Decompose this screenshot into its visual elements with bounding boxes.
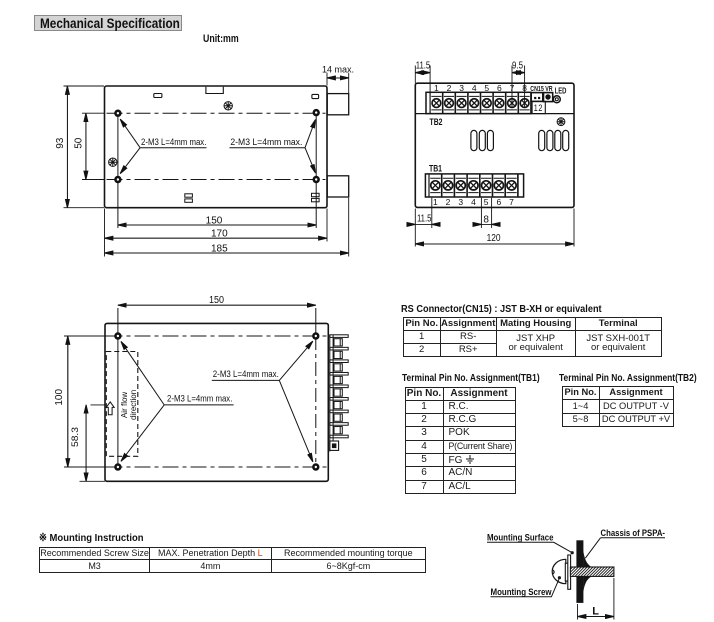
terminal block TB1: [425, 174, 523, 197]
svg-text:120: 120: [487, 233, 501, 244]
svg-text:Mounting Screw: Mounting Screw: [491, 587, 552, 598]
vent slot top-right: [312, 94, 319, 98]
svg-text:1: 1: [434, 83, 439, 93]
svg-text:CN15 VR: CN15 VR: [530, 84, 553, 93]
centerline bottom hole row: [107, 466, 328, 468]
dim 170: [105, 209, 328, 257]
vent slots group A: [471, 130, 494, 150]
TB2 pin numbers: [434, 83, 527, 93]
table: RS connector CN15: [401, 303, 602, 315]
svg-text:58.3: 58.3: [70, 427, 81, 447]
front panel outline: [415, 83, 574, 207]
svg-text:direction: direction: [129, 390, 138, 420]
mounting hole bottom-right: [312, 463, 319, 470]
screw head symbol left: [109, 158, 117, 166]
svg-text:11.5: 11.5: [417, 214, 432, 225]
svg-text:6: 6: [497, 83, 502, 93]
svg-text:TB2: TB2: [430, 117, 443, 127]
extension line above right hole: [315, 308, 317, 336]
dim 100: [64, 336, 114, 467]
svg-text:Chassis of PSPA-: Chassis of PSPA-: [601, 528, 666, 539]
svg-text:7: 7: [510, 83, 515, 93]
dim 93: [64, 86, 105, 208]
svg-text:2-M3 L=4mm max.: 2-M3 L=4mm max.: [213, 369, 279, 379]
svg-text:93: 93: [55, 137, 66, 149]
svg-text:2: 2: [447, 83, 452, 93]
mounting instruction title: [39, 532, 144, 544]
svg-text:100: 100: [54, 389, 65, 406]
svg-text:2-M3 L=4mm max.: 2-M3 L=4mm max.: [167, 393, 232, 403]
leader label left 2-M3 bottom view: [121, 342, 234, 462]
vent slot top-left: [154, 94, 162, 98]
air flow arrow: [106, 402, 114, 415]
mounting hole top-left: [114, 110, 121, 117]
leader label right 2-M3: [230, 120, 316, 173]
mounting hole top-left: [114, 332, 121, 339]
svg-text:5: 5: [484, 197, 489, 207]
screw shaft hatched: [560, 567, 627, 576]
washer: [565, 563, 568, 581]
dim 185: [105, 198, 349, 257]
svg-text:7: 7: [509, 197, 514, 207]
mounting hole top-right: [313, 109, 320, 116]
dim 150 bottom: [118, 224, 316, 226]
mounting surface plate: [568, 555, 571, 589]
table: TB2 pin assignment: [559, 373, 697, 384]
centerline top hole row: [107, 112, 326, 114]
dim 120: [415, 209, 574, 247]
svg-text:LED: LED: [555, 87, 567, 96]
chassis outline bottom view: [105, 323, 328, 481]
svg-text:4: 4: [472, 83, 477, 93]
connector CN15: [531, 93, 543, 102]
mounting hole bottom-left: [114, 463, 121, 470]
mounting hole bottom-left: [114, 176, 121, 183]
centerline top hole row: [107, 335, 328, 337]
terminal strip side view comb: [330, 335, 348, 452]
svg-text:150: 150: [206, 215, 223, 226]
screw head symbol top: [224, 102, 232, 110]
dim 150 top: [118, 304, 316, 306]
vent pair bottom-right: [312, 193, 320, 201]
table: TB1 pin assignment: [402, 373, 540, 384]
svg-text:150: 150: [209, 295, 224, 306]
section header: Mechanical Specification: [34, 15, 182, 31]
svg-text:9.5: 9.5: [512, 60, 523, 71]
svg-text:L: L: [592, 606, 599, 618]
chassis outline box: [105, 86, 328, 208]
svg-text:4: 4: [471, 197, 476, 207]
svg-text:Mounting Surface: Mounting Surface: [487, 533, 554, 544]
dim 50: [82, 113, 104, 179]
svg-text:2-M3 L=4mm max.: 2-M3 L=4mm max.: [141, 137, 206, 147]
vent slots group B: [539, 130, 569, 150]
leader label right 2-M3 bottom view: [212, 341, 313, 462]
svg-text:3: 3: [459, 83, 464, 93]
CN15 pin label compartment: [532, 101, 545, 113]
chassis black bar: [576, 540, 591, 603]
dashed fan region: [106, 352, 138, 457]
dim L: [578, 578, 614, 620]
panel divider line: [415, 113, 574, 115]
vent pair bottom-center: [185, 194, 193, 202]
svg-text:Air flow: Air flow: [120, 392, 129, 418]
svg-text:50: 50: [74, 137, 85, 149]
dim 11.5 bottom: [408, 198, 440, 247]
extension line through left holes: [117, 113, 119, 228]
dim 11.5 top: [415, 66, 430, 93]
dim 58.3: [80, 405, 106, 481]
dim 14 max: [327, 73, 349, 93]
TB1 pin numbers: [433, 197, 514, 207]
svg-text:170: 170: [211, 229, 228, 240]
leader mounting screw: [491, 576, 562, 597]
screw head symbol front: [557, 118, 565, 126]
leader chassis: [585, 538, 665, 558]
leader label left 2-M3: [120, 119, 206, 174]
svg-text:1 2: 1 2: [534, 103, 543, 113]
svg-text:2-M3 L=4mm max.: 2-M3 L=4mm max.: [230, 137, 302, 147]
mounting hole bottom-right: [313, 176, 320, 183]
top notch: [206, 87, 223, 94]
extension line through left holes: [117, 308, 119, 467]
dim 9.5 top: [512, 66, 525, 109]
svg-text:185: 185: [211, 243, 228, 254]
svg-text:2: 2: [446, 197, 451, 207]
svg-text:TB1: TB1: [429, 163, 442, 173]
svg-text:11.5: 11.5: [416, 60, 431, 71]
svg-text:1: 1: [433, 197, 438, 207]
LED indicator: [553, 96, 560, 103]
centerline bottom hole row: [107, 179, 326, 181]
unit label: [203, 33, 239, 45]
right tab lower: [327, 176, 349, 197]
svg-text:6: 6: [496, 197, 501, 207]
extension line through right holes: [315, 113, 317, 228]
potentiometer VR: [544, 93, 553, 102]
leader mounting surface: [487, 542, 574, 554]
dim 8 bottom: [474, 198, 500, 228]
mounting screw head: [552, 559, 566, 583]
centerline right holes vertical: [315, 336, 317, 467]
svg-text:3: 3: [458, 197, 463, 207]
mounting hole top-right: [312, 332, 319, 339]
screw slot: [552, 570, 554, 574]
table: mounting instruction: [39, 547, 426, 573]
terminal block TB2: [426, 92, 531, 113]
svg-text:14 max.: 14 max.: [322, 65, 354, 75]
svg-text:5: 5: [484, 83, 489, 93]
svg-text:8: 8: [522, 83, 527, 93]
right tab upper: [327, 94, 349, 115]
svg-text:8: 8: [483, 214, 489, 225]
